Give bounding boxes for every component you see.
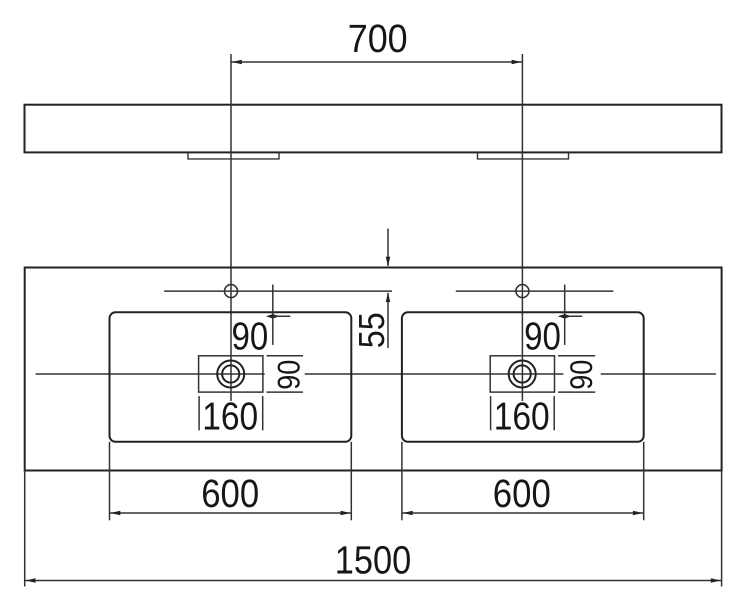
double arrowhead marker basin 2 — [558, 314, 572, 318]
countertop side view (top bar) — [25, 105, 722, 153]
svg-text:90: 90 — [564, 360, 599, 390]
faucet centerline 2 — [456, 290, 614, 292]
basin 1 rounded outline — [110, 312, 352, 442]
arrow left of 700 — [232, 60, 242, 64]
extension line through right faucet axis — [521, 54, 523, 401]
faucet hole 1 — [225, 285, 238, 298]
drain rect 2 bottom edge extension — [558, 391, 595, 393]
dimension 160 witness lines basin 1 — [198, 396, 200, 430]
drain fitting rectangle 2 — [490, 356, 554, 392]
svg-text:160: 160 — [202, 396, 258, 439]
drain rect 2 top edge extension — [558, 355, 595, 357]
drain 1 inner circle — [222, 365, 239, 382]
dimension 600 witness lines basin 1 — [109, 442, 111, 521]
extension line through left faucet axis — [230, 54, 232, 401]
svg-text:1500: 1500 — [335, 538, 412, 582]
dimension 1500 witness line right — [721, 471, 723, 587]
dimension 55 lower pointer — [387, 293, 389, 348]
faucet hole 2 — [516, 285, 529, 298]
basin 2 rounded outline — [402, 312, 644, 442]
dimension 90 vertical witness line basin 1 — [272, 285, 274, 345]
svg-text:160: 160 — [494, 396, 550, 439]
faucet centerline 1 — [164, 290, 392, 292]
svg-text:600: 600 — [493, 472, 551, 516]
svg-text:90: 90 — [272, 360, 307, 390]
drain 1 outer circle — [217, 361, 244, 388]
countertop plan view outline — [25, 268, 722, 471]
mounting tab left (under bar) — [188, 152, 279, 159]
horizontal centerline through drains — [36, 373, 716, 375]
dimension 160 witness lines basin 2 — [490, 396, 492, 430]
svg-text:600: 600 — [201, 472, 259, 516]
double arrowhead marker basin 1 — [266, 314, 280, 318]
drain fitting rectangle 1 — [199, 356, 263, 392]
mounting tab right (under bar) — [478, 152, 569, 159]
mask for rotated 90 text basin 1 — [265, 358, 305, 391]
drain 2 outer circle — [509, 361, 536, 388]
dimension 1500 witness line left — [24, 471, 26, 587]
drain rect 1 bottom edge extension — [267, 391, 304, 393]
svg-text:55: 55 — [351, 312, 392, 348]
svg-text:90: 90 — [232, 315, 269, 358]
dimension 700 line — [231, 61, 522, 63]
dimension 90 vertical witness line basin 2 — [564, 285, 566, 345]
dimension 600 line basin 2 — [402, 512, 644, 514]
mask for rotated 90 text basin 2 — [563, 358, 600, 391]
arrow right of 700 — [512, 60, 522, 64]
drain rect 1 top edge extension — [267, 355, 304, 357]
dimension 1500 line — [25, 580, 722, 582]
drain 2 inner circle — [514, 365, 531, 382]
svg-text:90: 90 — [524, 315, 561, 358]
svg-text:700: 700 — [348, 17, 408, 61]
dimension 55 upper pointer — [387, 229, 389, 267]
dimension 600 line basin 1 — [110, 512, 352, 514]
dimension 600 witness lines basin 2 — [401, 442, 403, 521]
